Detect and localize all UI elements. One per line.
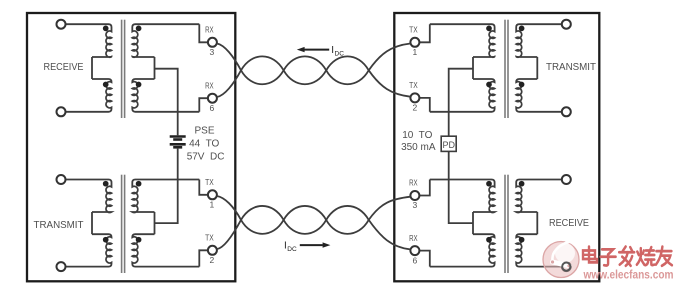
svg-text:6: 6 bbox=[210, 103, 215, 113]
svg-text:TX: TX bbox=[205, 178, 214, 187]
svg-text:3: 3 bbox=[413, 200, 418, 210]
svg-text:RX: RX bbox=[409, 179, 418, 188]
svg-text:PSE: PSE bbox=[194, 126, 214, 137]
svg-text:1: 1 bbox=[210, 200, 215, 210]
svg-text:TX: TX bbox=[409, 26, 418, 35]
svg-text:www.elecfans.com: www.elecfans.com bbox=[583, 269, 674, 281]
svg-text:1: 1 bbox=[413, 47, 418, 57]
svg-text:2: 2 bbox=[210, 255, 215, 265]
svg-text:350 mA: 350 mA bbox=[401, 142, 436, 153]
svg-text:PD: PD bbox=[442, 140, 455, 150]
svg-text:DC: DC bbox=[335, 51, 345, 58]
svg-text:RECEIVE: RECEIVE bbox=[549, 218, 589, 229]
svg-text:TRANSMIT: TRANSMIT bbox=[546, 62, 596, 73]
svg-text:6: 6 bbox=[413, 255, 418, 265]
svg-text:RX: RX bbox=[205, 26, 214, 35]
svg-text:2: 2 bbox=[413, 103, 418, 113]
svg-text:TRANSMIT: TRANSMIT bbox=[34, 220, 84, 231]
svg-text:57V DC: 57V DC bbox=[187, 151, 225, 162]
svg-text:RECEIVE: RECEIVE bbox=[44, 62, 84, 73]
svg-text:44 TO: 44 TO bbox=[189, 139, 219, 150]
svg-text:TX: TX bbox=[205, 234, 214, 243]
svg-text:RX: RX bbox=[409, 234, 418, 243]
svg-text:10 TO: 10 TO bbox=[402, 130, 432, 141]
svg-text:DC: DC bbox=[287, 246, 297, 253]
svg-text:TX: TX bbox=[409, 81, 418, 90]
svg-text:RX: RX bbox=[205, 81, 214, 90]
svg-text:3: 3 bbox=[210, 47, 215, 57]
